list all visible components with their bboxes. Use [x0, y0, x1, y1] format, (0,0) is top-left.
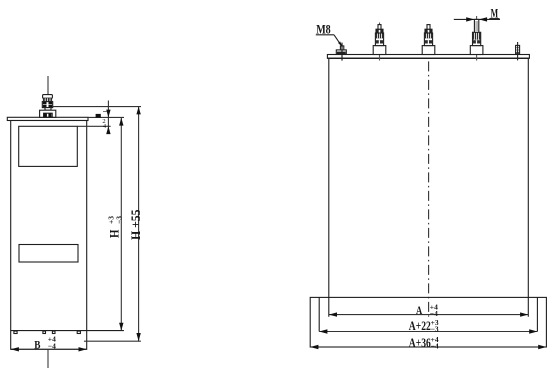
svg-text:A: A: [416, 305, 423, 317]
right view base rail outer rectangle: [310, 297, 546, 347]
A right arrow: [520, 312, 528, 316]
B right arrow: [79, 347, 87, 351]
H+55 bottom arrow: [136, 333, 140, 341]
left view bottom tab 4: [77, 331, 80, 333]
extension line from nameplate top: [77, 125, 110, 127]
left view bottom tab 2: [43, 331, 46, 333]
left view terminal nut: [42, 102, 52, 108]
left view bottom tab 3: [52, 331, 55, 333]
small dimension tiny text: [102, 112, 107, 131]
H bottom arrow: [119, 323, 123, 331]
dimension line A+22: [319, 331, 537, 333]
left view terminal threaded band: [43, 98, 52, 101]
left view tank body: [11, 121, 87, 350]
M8 leader line: [334, 35, 342, 46]
right small stud: [516, 42, 520, 60]
base rail inner right vertical: [536, 297, 538, 331]
svg-text:H: H: [108, 229, 122, 238]
svg-text:−4: −4: [48, 341, 56, 350]
svg-text:H +55: H +55: [129, 210, 143, 241]
svg-text:−3: −3: [431, 325, 439, 334]
bushing 1: [373, 25, 386, 55]
dimension line A: [329, 314, 529, 316]
extension line from lid top: [88, 116, 124, 118]
bushing 3 centerline: [476, 16, 478, 61]
bushing 1 centerline: [379, 23, 381, 61]
left view centerline: [47, 76, 49, 368]
small dimension down arrow: [106, 110, 110, 118]
label A+22 +3/-3: [409, 318, 439, 333]
label A +4/-4: [416, 302, 438, 318]
small dimension up arrow: [106, 126, 110, 134]
right view dash-dot centerline: [428, 24, 430, 316]
M left arrow (pointing right): [466, 17, 474, 21]
left view terminal base inner detail: [44, 113, 53, 117]
left view terminal base bracket: [40, 110, 56, 117]
svg-text:−3: −3: [115, 216, 124, 224]
left view terminal neck: [45, 108, 51, 111]
small dimension line near lid: [107, 101, 109, 135]
M underline: [489, 18, 499, 20]
M8 label: [316, 23, 331, 37]
left view middle rectangle: [19, 245, 78, 263]
A+22 right arrow: [529, 329, 537, 333]
left view bottom seam line (extends as H extension line): [11, 330, 124, 332]
base rail inner left vertical: [318, 297, 320, 331]
bushing 2 (on main centerline): [422, 25, 435, 55]
svg-text:−4: −4: [430, 309, 438, 318]
B left arrow: [11, 347, 19, 351]
left view nameplate rectangle: [19, 126, 78, 166]
left view bottom tab 1: [14, 331, 17, 333]
black weld square on lid extension line: [96, 114, 101, 118]
dimension line M: [454, 18, 500, 20]
M8 leader arrow: [338, 42, 342, 47]
extension line from terminal top: [53, 106, 141, 108]
svg-text:B: B: [34, 340, 40, 352]
dimension line H: [120, 118, 122, 331]
dimension line B (on body bottom edge): [11, 348, 87, 350]
right view left wall: [328, 58, 330, 317]
label H +3/-3 (rotated): [107, 216, 124, 238]
M label: [491, 7, 499, 21]
M8 grounding stud: [336, 43, 346, 61]
svg-text:A+36: A+36: [409, 336, 431, 350]
extension line for H+55 bottom: [84, 340, 141, 342]
M right arrow (pointing left): [479, 17, 487, 21]
svg-text:−4: −4: [431, 341, 439, 350]
dimension line H+55: [138, 107, 140, 342]
H top arrow: [119, 118, 123, 126]
A left arrow: [329, 312, 337, 316]
left view terminal cap: [43, 95, 53, 99]
svg-text:A+22: A+22: [409, 319, 431, 333]
label B +4/-4: [34, 334, 56, 351]
label A+36 +4/-4: [409, 335, 439, 350]
right view lid bottom edge (heavier): [327, 57, 529, 59]
right view lid plate: [327, 55, 529, 59]
bushing 3 (with long stud for M dimension): [470, 19, 483, 54]
A+22 left arrow: [319, 329, 327, 333]
right view right wall: [527, 58, 529, 317]
dimension line A+36 arrows (on base bottom edge): [310, 345, 318, 349]
label H +55 (rotated): [129, 210, 143, 241]
left view lid plate: [7, 117, 88, 120]
H+55 top arrow: [136, 107, 140, 115]
M8 underline: [316, 34, 334, 36]
